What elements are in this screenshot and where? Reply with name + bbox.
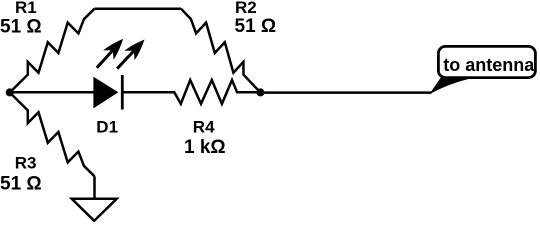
wire node to antenna callout — [260, 91, 431, 94]
LED arrow 1 shaft — [97, 50, 113, 68]
svg-text:R4: R4 — [193, 118, 215, 137]
svg-text:51 Ω: 51 Ω — [235, 16, 277, 37]
node B (right junction) — [256, 88, 264, 96]
wire top — [95, 7, 182, 10]
callout box — [438, 46, 535, 77]
LED D1 triangle — [94, 78, 118, 108]
LED arrow 1 head — [103, 39, 123, 60]
resistor R3 — [10, 93, 95, 177]
svg-text:R3: R3 — [15, 153, 37, 172]
svg-text:1 kΩ: 1 kΩ — [184, 137, 226, 158]
svg-text:to antenna: to antenna — [443, 55, 535, 75]
node A (left junction) — [6, 88, 14, 96]
resistor R1 — [10, 9, 95, 93]
svg-text:R2: R2 — [235, 0, 257, 17]
wire node to LED anode — [10, 91, 94, 94]
callout tail — [429, 77, 481, 95]
resistor R4 — [124, 80, 261, 104]
LED arrow 2 head — [124, 40, 144, 61]
LED D1 cathode bar — [121, 75, 124, 110]
resistor R2 — [181, 9, 260, 93]
svg-text:R1: R1 — [15, 0, 37, 17]
svg-text:D1: D1 — [96, 118, 118, 137]
svg-text:51 Ω: 51 Ω — [0, 173, 42, 194]
LED arrow 2 shaft — [117, 51, 134, 69]
wire R3 to ground — [93, 176, 96, 199]
svg-text:51 Ω: 51 Ω — [0, 17, 42, 38]
ground — [72, 199, 117, 221]
